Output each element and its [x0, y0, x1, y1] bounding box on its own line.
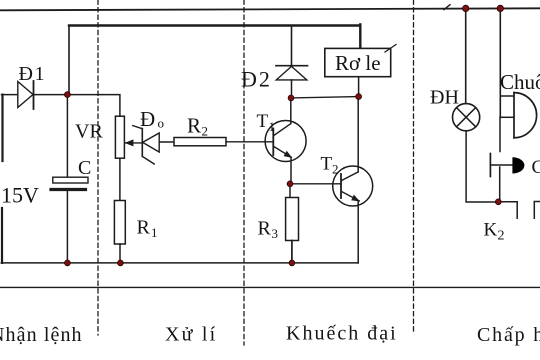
svg-text:Đ1: Đ1	[19, 63, 46, 85]
svg-text:C: C	[78, 157, 91, 179]
wire left edge lower	[1, 208, 3, 263]
resistor R1	[114, 201, 125, 245]
relay box	[325, 48, 391, 76]
wire bell branch	[499, 8, 501, 117]
wire lamp bottom	[466, 131, 498, 202]
svg-text:R: R	[258, 218, 272, 240]
svg-text:2: 2	[498, 229, 505, 244]
svg-text:T: T	[321, 154, 333, 175]
zener diode Do	[141, 129, 143, 157]
svg-text:Khuếch đại: Khuếch đại	[286, 323, 398, 345]
wire relay bottom	[358, 77, 360, 97]
wire left edge upper (15V source lead)	[1, 95, 3, 161]
svg-text:15V: 15V	[1, 183, 39, 208]
svg-text:1: 1	[269, 119, 276, 134]
wire top rail	[0, 8, 540, 10]
wire horn to K2 node	[499, 167, 501, 202]
svg-text:o: o	[158, 116, 165, 131]
wire R2 to T1 base	[226, 141, 273, 143]
wire D1 to VR corner	[34, 95, 120, 117]
svg-text:R: R	[187, 113, 201, 137]
svg-text:T: T	[257, 111, 269, 132]
wire T2 collector	[357, 97, 359, 172]
wire node to relay node	[291, 97, 359, 98]
horn (coi)	[489, 154, 491, 177]
wire capacitor branch bottom	[66, 191, 68, 263]
node D1/VR	[65, 92, 71, 98]
resistor R3	[286, 198, 299, 241]
svg-text:Rơ le: Rơ le	[335, 51, 381, 75]
tick on relay box corner	[385, 45, 396, 53]
svg-text:K: K	[484, 220, 498, 241]
dashed divider 2	[243, 0, 245, 345]
svg-text:3: 3	[272, 226, 279, 241]
svg-text:R: R	[137, 217, 151, 239]
svg-text:Xử lí: Xử lí	[165, 324, 217, 346]
svg-text:Đ2: Đ2	[241, 66, 272, 91]
wire bottom rail	[1, 262, 358, 264]
dashed divider 1	[97, 0, 99, 335]
wire node to R3	[289, 184, 291, 198]
wire T2 emitter	[357, 201, 359, 263]
bell terminals	[500, 95, 514, 97]
wire tick on top rail	[444, 5, 450, 10]
wire VR to R1	[119, 158, 121, 200]
wire R3 bottom	[291, 241, 293, 263]
svg-text:2: 2	[332, 162, 339, 177]
wire second top line to relay	[69, 24, 360, 26]
svg-text:Chuông: Chuông	[500, 70, 540, 94]
node R1 bottom	[118, 260, 124, 266]
node lamp top	[463, 5, 469, 11]
node relay/T2	[356, 94, 362, 100]
wire D2 branch from second line	[291, 26, 293, 66]
svg-text:ĐH: ĐH	[430, 86, 459, 108]
wire R1 bottom	[119, 244, 121, 263]
wire zener to R2	[159, 141, 174, 143]
svg-text:Còi: Còi	[532, 157, 540, 178]
wire bell to horn	[499, 117, 501, 151]
diode D2	[276, 65, 308, 67]
wire T1 emitter	[290, 157, 292, 184]
lamp DH	[453, 104, 480, 131]
svg-text:Chấp hành: Chấp hành	[477, 324, 540, 346]
diode D1	[18, 82, 33, 108]
svg-text:VR: VR	[75, 121, 103, 143]
wire D1 anode	[2, 94, 18, 96]
svg-text:2: 2	[202, 123, 209, 138]
wire D2 to node	[291, 80, 293, 98]
switch K2 right contact	[534, 202, 540, 219]
node T1e/T2b/R3	[287, 181, 293, 187]
svg-text:Nhận lệnh: Nhận lệnh	[0, 324, 83, 346]
node D2/T1	[288, 95, 294, 101]
wire relay drop	[359, 24, 361, 48]
transistor T1	[265, 121, 306, 162]
potentiometer VR	[115, 116, 124, 158]
wire vertical x69	[68, 26, 70, 95]
wire T1 collector	[290, 98, 292, 124]
dashed divider 3	[413, 0, 415, 334]
capacitor C	[53, 177, 88, 183]
svg-text:Đ: Đ	[140, 107, 155, 131]
node bell top	[497, 5, 503, 11]
wiper arrow of VR	[125, 142, 142, 144]
bell (chuong)	[513, 93, 515, 138]
svg-text:1: 1	[151, 225, 158, 240]
section label line	[0, 286, 540, 288]
switch K2 left contact	[498, 202, 517, 219]
wire lamp branch	[465, 8, 467, 103]
transistor T2	[333, 166, 373, 206]
node horn/K2	[495, 199, 501, 205]
wire capacitor branch top	[66, 95, 68, 178]
resistor R2	[174, 138, 226, 146]
node R3 bottom	[289, 260, 295, 266]
node cap bottom	[65, 260, 71, 266]
